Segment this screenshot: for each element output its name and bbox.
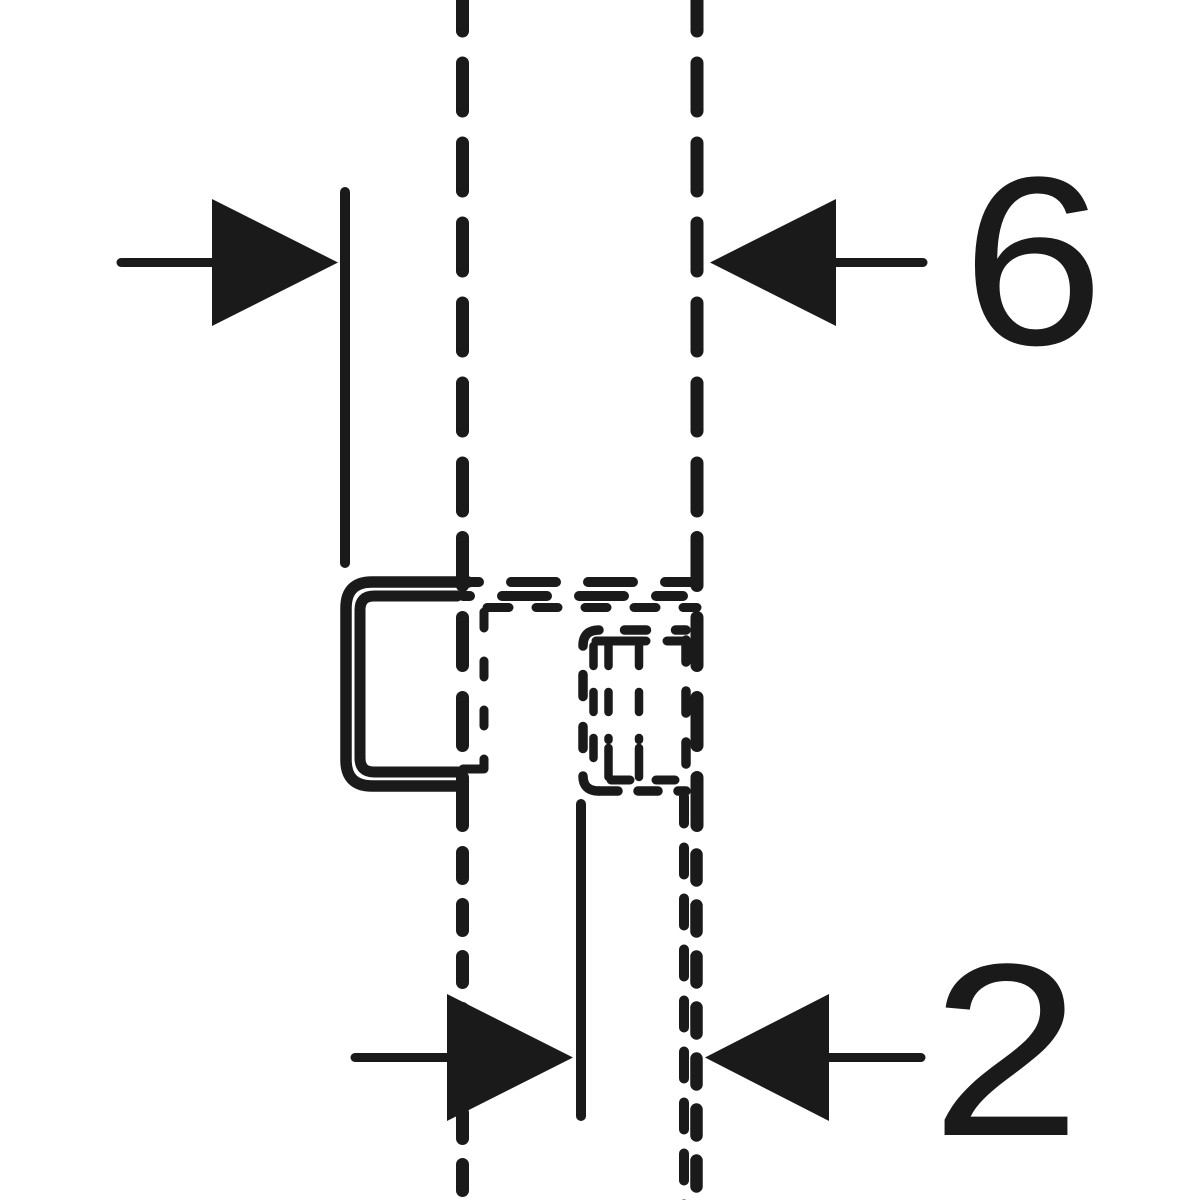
bracket inner contour [360,596,458,772]
top-left dimension arrowhead [212,199,338,326]
right reference dashed line lower part [690,855,703,1200]
tube inner top edge [591,637,686,646]
left reference dashed line upper part [456,0,469,518]
bottom-right dimension arrow tail [823,1053,921,1062]
top measurement extension line [340,192,350,563]
tube outer top-left corner [583,630,599,646]
left reference dashed line middle part [456,538,469,832]
right reference dashed line upper part [691,0,704,518]
bottom-right dimension arrowhead [705,994,829,1121]
top-right dimension arrow tail [830,258,923,267]
svg-text:6: 6 [962,127,1104,395]
right reference dashed line middle part [691,538,704,832]
hidden outer top edge (row A) [470,577,697,587]
left reference dashed line lower part [456,853,469,1200]
tube inner bottom edge [606,776,686,785]
hidden rail left edge [480,612,489,769]
tube outer bottom edge [599,786,686,796]
tube outer right edge [681,632,691,789]
bottom-left dimension arrow tail [355,1053,455,1062]
middle measurement extension line [576,804,586,1116]
tube outer bottom-left corner [583,776,599,791]
bottom-left dimension arrowhead [447,994,573,1121]
tube outer top edge [599,625,686,635]
tube inner wall line 3 [635,646,644,740]
top-right dimension arrowhead [710,199,836,326]
bracket outer contour [346,582,468,786]
hidden inner top edge (row B) [463,591,683,601]
hidden rail top edge (row C) [482,603,697,612]
secondary hidden-edge dashed line lower right [679,797,689,1200]
tube inner wall line 1 [589,646,598,770]
top-left dimension arrow tail [121,258,220,267]
tube inner wall line 2 [604,646,613,740]
svg-text:2: 2 [931,913,1081,1188]
hidden rail bottom connector [463,765,482,774]
tube inner wall line 3 lower stub [635,748,644,777]
tube outer left edge [578,646,588,776]
tube inner wall line 2 lower stub [604,748,613,777]
